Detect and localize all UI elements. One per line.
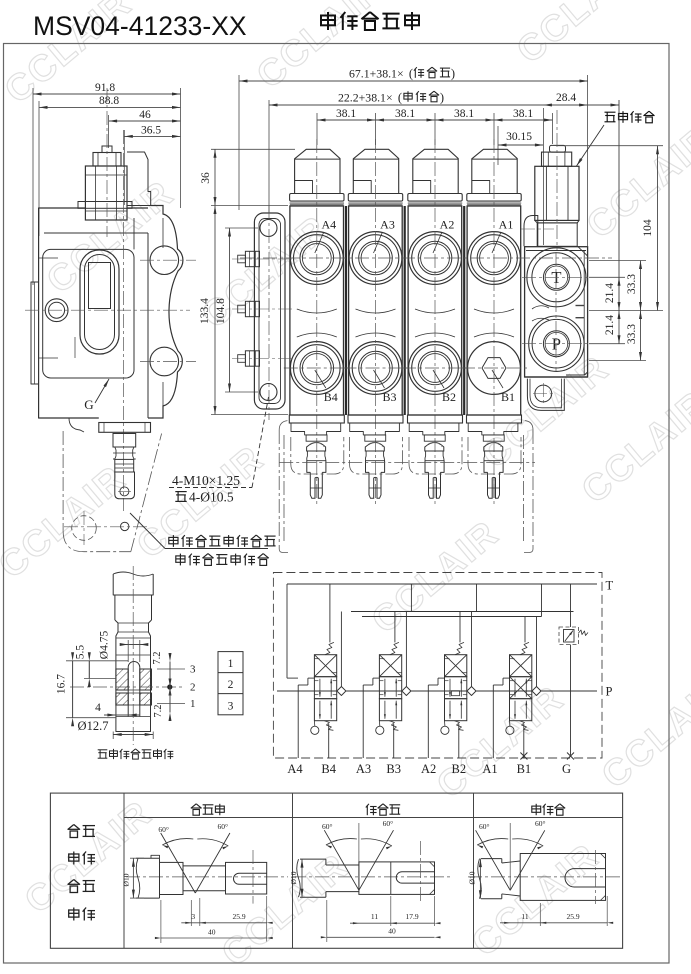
valve section 1 body: [467, 206, 521, 415]
valve section 2 cap notch: [413, 181, 431, 194]
svg-text:A3: A3: [380, 218, 395, 232]
side view: relief valve seat plate: [78, 202, 132, 209]
svg-text:P: P: [606, 685, 613, 699]
section 2 spool stem: [424, 435, 445, 441]
side view: spool stem: [113, 434, 136, 448]
valve section 3 bonnet flange: [348, 194, 402, 202]
svg-text:133.4: 133.4: [199, 298, 211, 324]
schematic T rail: [287, 583, 597, 585]
port B2 circle: [409, 342, 462, 395]
60deg dimension arcs: [326, 839, 357, 845]
side view: relief valve hex body: [85, 166, 127, 220]
dim 5.5: [84, 678, 116, 680]
svg-text:91.8: 91.8: [95, 82, 115, 94]
dim 104 right side: [558, 145, 663, 147]
spool body1 with break line: [300, 858, 326, 860]
side view: right profile with bosses: [148, 206, 183, 419]
side view: bent plate phantom outline: [62, 431, 64, 531]
svg-text:A4: A4: [287, 762, 303, 776]
valve section 3 bonnet cap: [353, 149, 398, 193]
fork slot: [234, 873, 267, 884]
svg-text:MSV04-41233-XX: MSV04-41233-XX: [33, 11, 247, 41]
relief valve on end cap: hex body: [535, 166, 579, 220]
section 4 spool cylinder: [307, 451, 326, 461]
dim 3 and 25.9: [190, 900, 192, 926]
A-row centerline across sections: [240, 257, 612, 259]
T P centerlines horizontal: [522, 276, 590, 278]
svg-text:2: 2: [228, 679, 234, 691]
neck section: [326, 864, 359, 866]
section 3 spool clevis with fork: [366, 461, 370, 473]
svg-text:7.2: 7.2: [153, 704, 164, 717]
svg-text:11: 11: [521, 912, 528, 921]
svg-text:25.9: 25.9: [232, 912, 245, 921]
svg-text:4-Ø10.5: 4-Ø10.5: [189, 490, 234, 505]
fork pin centerline: [595, 850, 597, 904]
spool end view: level line 2 with dot: [70, 686, 185, 688]
fork slot: [565, 869, 606, 887]
section 1 bent plate slot phantom: [468, 437, 521, 474]
side view: boss circles: [150, 246, 179, 275]
table header dan zuo yong 1: [366, 804, 377, 815]
section 4 bonnet plate below: [291, 423, 341, 435]
svg-text:40: 40: [208, 928, 216, 937]
side view: bent plate hole phantom circle: [72, 516, 97, 541]
svg-text:3: 3: [190, 664, 196, 676]
svg-text:4-M10×1.25: 4-M10×1.25: [172, 473, 240, 488]
dim 40: [326, 900, 328, 942]
section separators thick: [345, 206, 347, 415]
end cap bottom-right ear with hole: [527, 379, 564, 411]
dim 33.3 upper: [589, 260, 646, 262]
section 3 bent plate slot phantom: [350, 437, 403, 474]
dim 21.4 lower: [618, 311, 620, 344]
section 2 bent plate slot phantom: [409, 437, 462, 474]
side view: spool lower rod with grooves: [115, 459, 134, 472]
svg-text:T: T: [606, 579, 614, 593]
end cap bottom step bar: [566, 372, 588, 375]
valve section 2 body: [408, 206, 462, 415]
valve section 1 bonnet cap: [472, 149, 517, 193]
port B1 circle: [468, 342, 521, 395]
spool end view: slot: [128, 662, 140, 717]
fork end chamfers: [430, 862, 435, 867]
spool centerline: [126, 876, 288, 878]
dim 38.1 x4 chain: [316, 113, 318, 145]
schematic check valve diamonds: [337, 687, 346, 696]
spool body1 with break line: [136, 857, 160, 859]
svg-text:): ): [440, 91, 444, 105]
section 2 spool clevis with fork: [425, 461, 429, 473]
spool end view: groove lines: [116, 689, 152, 691]
dim 21.4 upper: [618, 100, 620, 277]
svg-text:60°: 60°: [535, 819, 546, 828]
relief valve top nut: [542, 152, 572, 166]
port P circle: [529, 316, 584, 371]
side view: clevis pin hole: [120, 487, 129, 496]
fork slot: [396, 872, 434, 883]
dim 11 and 17.9: [390, 896, 392, 926]
svg-text:5.5: 5.5: [75, 645, 87, 660]
section 3 spool dome: [365, 443, 384, 452]
svg-text:4: 4: [95, 702, 101, 714]
side view: centerlines bosses: [140, 259, 196, 261]
relief valve centerline: [556, 110, 558, 250]
dim 33.3 lower: [589, 360, 646, 362]
V notch 60 deg: [161, 833, 196, 893]
section 4 casting arcs: [297, 309, 337, 313]
end cap right edge details: [583, 251, 585, 376]
section 4 bottom flange: [289, 415, 344, 423]
section 1 spool clevis with fork: [484, 461, 488, 473]
svg-text:38.1: 38.1: [454, 108, 474, 120]
svg-text:67.1+38.1×: 67.1+38.1×: [349, 67, 404, 81]
schematic relief valve branch: [570, 584, 572, 627]
svg-text:1: 1: [228, 658, 234, 670]
side view: small details top-left: [39, 257, 58, 259]
side view: inner vertical face line: [147, 233, 149, 418]
spool end view: neck: [115, 620, 118, 655]
end cap body right: [525, 247, 588, 377]
spool centerline: [468, 876, 620, 878]
svg-text:1: 1: [190, 698, 196, 710]
section 1 casting arcs: [474, 309, 514, 313]
port A2 circle: [409, 232, 462, 285]
side view: top inner line: [44, 232, 148, 234]
note: bent plate shape note line1: [169, 535, 178, 547]
side view: spool neck: [113, 447, 116, 459]
dim 7.2 upper: [169, 662, 171, 688]
B-row centerlines per section: [284, 367, 350, 369]
svg-text:3: 3: [228, 701, 234, 713]
section 4 spool clevis with fork: [307, 461, 311, 473]
svg-text:B1: B1: [517, 762, 532, 776]
section 3 spool stem: [365, 435, 386, 441]
section 4 centerline: [316, 139, 318, 505]
valve section 4 bonnet cap: [295, 149, 340, 193]
section 2 bottom flange: [408, 415, 463, 423]
svg-text:): ): [451, 67, 455, 81]
relief valve neck: [537, 223, 577, 246]
schematic valve unit 1: [314, 655, 336, 677]
side view: left protrusion plate: [31, 282, 39, 384]
svg-text:21.4: 21.4: [604, 283, 616, 303]
section 1 centerline: [493, 139, 495, 505]
side view: body foot arc left: [69, 418, 84, 432]
port B4 circle: [290, 342, 343, 395]
side view: relief valve top nut: [93, 153, 121, 167]
dim 67.1+38.1x (valve-stem count), top chain: [238, 75, 240, 210]
fork pin centerline: [419, 841, 421, 903]
table label column separator: [123, 793, 125, 948]
svg-text:A4: A4: [321, 218, 336, 232]
svg-text:22.2+38.1×: 22.2+38.1×: [338, 91, 393, 105]
svg-text:38.1: 38.1: [513, 108, 533, 120]
fork pin centerline: [252, 850, 254, 904]
svg-text:104.8: 104.8: [215, 298, 227, 324]
port B3 circle: [349, 342, 402, 395]
label main safety valve (zhu an quan fa) with leader: [605, 112, 616, 122]
svg-text:16.7: 16.7: [56, 674, 68, 694]
side view: centerline relief valve vertical: [106, 88, 108, 237]
fork body: [226, 862, 267, 894]
svg-text:33.3: 33.3: [626, 324, 638, 344]
dim 4: [115, 706, 117, 719]
svg-text:60°: 60°: [479, 822, 490, 831]
svg-text:Ø10: Ø10: [468, 871, 477, 884]
schematic valve unit 2: [379, 655, 401, 677]
valve section 2 bonnet cap: [413, 149, 458, 193]
svg-text:Ø4.75: Ø4.75: [99, 631, 111, 660]
V notch 60 deg: [324, 830, 359, 890]
bend line across spools phantom: [279, 462, 535, 464]
dim 40: [160, 900, 162, 943]
section 1 bonnet plate below: [468, 423, 518, 435]
side view: centerline through plate holes: [64, 526, 150, 528]
dia10 dim: [301, 859, 303, 897]
side view: face panel: [43, 249, 134, 378]
fork end chamfers: [601, 854, 606, 859]
V notch 60 deg: [476, 830, 511, 890]
note: bent plate shape note line2: [176, 554, 185, 566]
svg-text:3: 3: [191, 912, 195, 921]
caption: spool end view and stroke: [98, 750, 108, 758]
bracket bolt at y=309: [238, 305, 246, 313]
svg-text:Ø10: Ø10: [122, 873, 131, 886]
schematic valve unit 4: [510, 655, 532, 677]
schematic valve unit 3: [445, 655, 467, 677]
schematic dashed border: [273, 573, 602, 759]
schematic vertical connectors: [286, 584, 288, 678]
svg-text:2: 2: [190, 682, 196, 694]
under-valve phantom bracket left pair: [278, 430, 280, 549]
svg-text:B2: B2: [442, 390, 456, 404]
section 2 centerline: [434, 139, 436, 505]
valve section 4 body: [290, 206, 344, 415]
end cap top-left ear tab: [524, 216, 538, 247]
spool mid shaft: [183, 865, 226, 867]
port T circle: [527, 248, 586, 307]
dim 16.7: [66, 660, 128, 662]
60deg dimension arcs: [162, 839, 193, 845]
stroke mini table 1/2/3: [218, 652, 243, 715]
spool end view: shaft top with break line: [113, 572, 153, 576]
side view: centerline spool vertical: [123, 130, 125, 511]
svg-text:33.3: 33.3: [626, 274, 638, 294]
bracket bolt at y=358.5: [238, 355, 246, 363]
dim 11 and 25.9: [539, 903, 541, 926]
svg-text:25.9: 25.9: [566, 912, 579, 921]
valve section 4 bonnet flange: [290, 194, 344, 202]
spool end view: clevis body: [116, 655, 151, 732]
port A4 circle: [290, 232, 343, 285]
svg-text:17.9: 17.9: [405, 912, 418, 921]
port A3 circle: [349, 232, 402, 285]
section 2 bonnet plate below: [409, 423, 459, 435]
section 2 spool dome: [425, 443, 444, 452]
table column separators: [292, 793, 294, 948]
valve section 2 bonnet flange: [408, 194, 462, 202]
valve section 1 bonnet flange: [467, 194, 521, 202]
side view: flange under body: [99, 423, 151, 433]
section 3 centerline: [375, 139, 377, 505]
side view: bent plate small hole: [121, 522, 129, 530]
section 1 spool dome: [484, 443, 503, 452]
spool body1 with break line: [481, 858, 502, 860]
valve section 1 cap notch: [472, 181, 490, 194]
left mounting bracket plate: [254, 213, 285, 409]
60deg dimension arcs: [477, 839, 508, 845]
svg-text:B3: B3: [386, 762, 401, 776]
relief valve stem cap: [550, 145, 566, 152]
table header shuang zuo yong: [191, 804, 202, 815]
svg-text:28.4: 28.4: [556, 92, 576, 104]
spool centerline: [292, 876, 452, 878]
body1 top notch: [151, 855, 160, 858]
svg-text:38.1: 38.1: [395, 108, 415, 120]
svg-text:B3: B3: [382, 390, 396, 404]
schematic mid rails: [351, 611, 574, 613]
svg-text:38.1: 38.1: [336, 108, 356, 120]
end cap casting arcs: [532, 306, 549, 309]
dim dia 4.75: [127, 640, 129, 662]
section 1 spool stem: [483, 435, 504, 441]
table header dan zuo yong 2: [532, 804, 541, 815]
svg-text:88.8: 88.8: [99, 95, 119, 107]
port A1 circle: [468, 232, 521, 285]
svg-text:40: 40: [388, 927, 396, 936]
svg-text:36: 36: [200, 172, 212, 184]
section 4 spool stem: [306, 435, 327, 441]
table header line: [124, 817, 623, 819]
bracket bottom hole: [260, 384, 277, 401]
svg-text:A1: A1: [499, 218, 514, 232]
spool end view: centerline: [132, 566, 134, 745]
valve section 4 cap notch: [295, 181, 313, 194]
svg-text:A1: A1: [482, 762, 497, 776]
section 3 bottom flange: [348, 415, 403, 423]
svg-text:Ø10: Ø10: [289, 871, 298, 884]
section 1 spool cylinder: [484, 451, 503, 461]
section 2 casting arcs: [415, 309, 455, 313]
spool end view: level line 3: [157, 668, 185, 670]
svg-text:G: G: [84, 397, 93, 412]
side view: bent bracket tab right of relief valve: [127, 152, 151, 206]
svg-text:B1: B1: [501, 390, 515, 404]
side view: stadium slot inner: [85, 255, 115, 350]
valve section 3 cap notch: [353, 181, 371, 194]
side view: stadium slot outer: [80, 250, 119, 354]
svg-text:7.2: 7.2: [152, 651, 163, 664]
section 3 spool cylinder: [366, 451, 385, 461]
side view: spool clevis: [115, 472, 135, 499]
section 3 bonnet plate below: [350, 423, 400, 435]
side view: left port circle: [45, 299, 68, 322]
side view: relief valve stem: [102, 146, 112, 153]
svg-text:Ø12.7: Ø12.7: [78, 719, 109, 733]
schematic X marks: [520, 753, 527, 760]
bracket top hole: [260, 220, 277, 237]
svg-text:60°: 60°: [322, 822, 333, 831]
main shaft with fork: [359, 862, 435, 895]
under-valve phantom bracket right pair: [523, 435, 525, 543]
section 1 bottom flange: [467, 415, 522, 423]
svg-text:36.5: 36.5: [141, 125, 161, 137]
dim 22.2+38.1x (valve-stem count): [268, 100, 270, 213]
bracket centerline vertical: [268, 206, 270, 420]
spool body2: [160, 862, 184, 894]
svg-text:A2: A2: [421, 762, 436, 776]
bracket bolt at y=259: [238, 255, 246, 263]
side view: body outline: [39, 208, 99, 418]
svg-text:104: 104: [642, 219, 654, 237]
svg-text:G: G: [562, 762, 571, 776]
svg-text:(: (: [398, 91, 402, 105]
svg-text:46: 46: [139, 109, 151, 121]
svg-text:11: 11: [371, 912, 378, 921]
side view: slot inner rectangle: [89, 263, 111, 309]
svg-text:60°: 60°: [158, 825, 169, 834]
dim dia 12.7: [112, 732, 114, 740]
svg-text:30.15: 30.15: [506, 131, 532, 143]
main shaft with fork: [520, 854, 605, 901]
svg-text:B4: B4: [321, 762, 336, 776]
section 4 spool dome: [307, 443, 326, 452]
dia10 dim: [479, 859, 481, 899]
spool end view: hatched blocks lower: [116, 693, 128, 705]
svg-text:60°: 60°: [383, 819, 394, 828]
table left label: fa gan duan bu qie cao xing shi: [68, 825, 80, 838]
dim 7.2 lower: [169, 687, 171, 713]
section 2 spool cylinder: [425, 451, 444, 461]
bottom table outer frame: [50, 793, 622, 948]
spool end view: level line 1: [157, 702, 185, 704]
dia10 dim: [130, 857, 144, 859]
svg-text:A2: A2: [440, 218, 455, 232]
svg-text:B4: B4: [324, 390, 338, 404]
side view: centerline left port horizontal: [25, 309, 190, 311]
valve section 3 body: [349, 206, 403, 415]
neck to shaft: [502, 861, 520, 863]
title chinese: bu dai fen liu fa: [321, 12, 335, 30]
svg-text:60°: 60°: [217, 822, 228, 831]
section 3 casting arcs: [356, 309, 396, 313]
section 4 bent plate slot phantom: [291, 437, 344, 474]
svg-text:21.4: 21.4: [604, 315, 616, 335]
svg-text:A3: A3: [356, 762, 371, 776]
svg-text:(: (: [409, 67, 413, 81]
svg-text:B2: B2: [452, 762, 467, 776]
schematic P rail: [277, 690, 597, 692]
